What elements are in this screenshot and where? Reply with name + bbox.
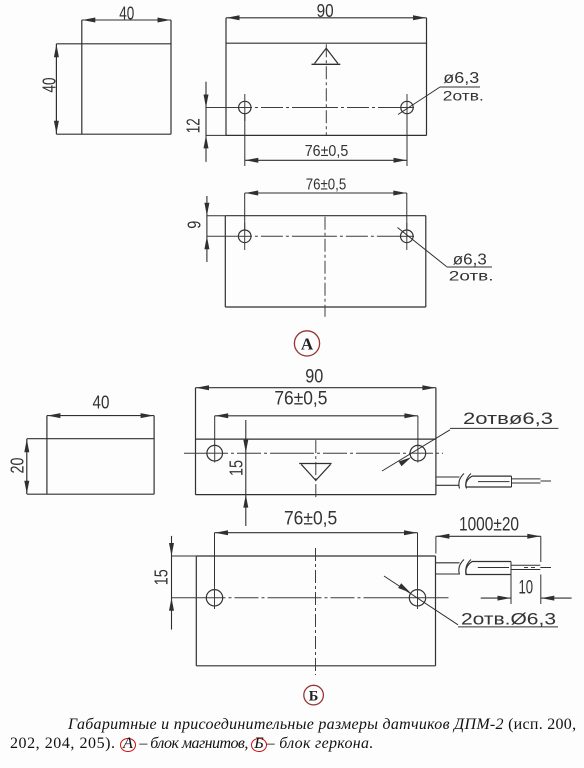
svg-text:А: А (301, 334, 314, 353)
svg-text:90: 90 (317, 1, 334, 21)
svg-text:2отв.: 2отв. (449, 268, 494, 284)
svg-text:12: 12 (184, 118, 204, 133)
svg-text:10: 10 (519, 578, 534, 599)
svg-text:76±0,5: 76±0,5 (306, 177, 347, 194)
svg-text:76±0,5: 76±0,5 (274, 389, 327, 410)
svg-text:Б: Б (309, 688, 319, 704)
svg-text:2отв.Ø6,3: 2отв.Ø6,3 (461, 610, 556, 629)
svg-text:ø6,3: ø6,3 (443, 70, 479, 87)
svg-text:15: 15 (151, 569, 171, 585)
svg-text:9: 9 (185, 221, 205, 229)
svg-text:2отв.: 2отв. (443, 88, 484, 104)
svg-text:90: 90 (305, 367, 323, 388)
svg-text:40: 40 (93, 393, 110, 413)
svg-text:40: 40 (39, 78, 59, 93)
svg-text:40: 40 (119, 3, 134, 23)
svg-text:15: 15 (226, 460, 246, 476)
svg-text:1000±20: 1000±20 (459, 515, 519, 536)
svg-text:2отвø6,3: 2отвø6,3 (463, 409, 553, 428)
svg-text:20: 20 (7, 458, 27, 474)
svg-text:76±0,5: 76±0,5 (305, 143, 349, 160)
svg-text:76±0,5: 76±0,5 (284, 509, 337, 530)
svg-text:ø6,3: ø6,3 (453, 251, 487, 268)
